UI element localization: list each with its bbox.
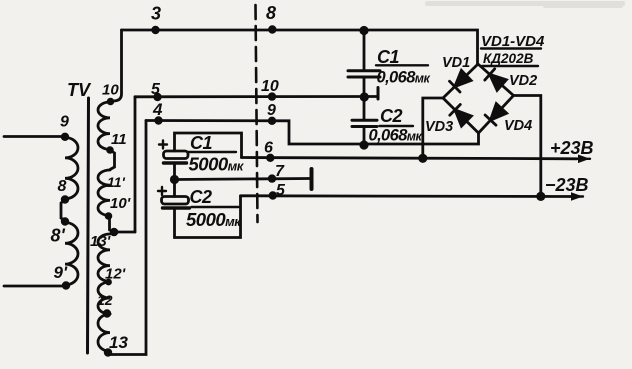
svg-text:0,068мк: 0,068мк bbox=[377, 69, 431, 87]
wire 10' down to tap junction bbox=[109, 216, 110, 230]
svg-text:C2: C2 bbox=[380, 106, 402, 126]
secondary winding 12-13 bbox=[98, 314, 110, 351]
node 10 (cable pin) bbox=[268, 92, 276, 100]
plus sign C1 bbox=[159, 141, 167, 149]
terminal tick at end of line 10 bbox=[377, 88, 380, 100]
node 12 bbox=[103, 309, 111, 317]
svg-text:VD1: VD1 bbox=[442, 55, 470, 71]
node 13' tap junction bbox=[110, 228, 119, 237]
wire left lead to primary terminal 9 bbox=[4, 135, 64, 138]
junction node bridge - output bbox=[536, 192, 545, 201]
svg-text:−23В: −23В bbox=[545, 175, 589, 195]
junction node bridge + output bbox=[418, 154, 427, 163]
node 9' bbox=[62, 281, 70, 289]
wire bridge left corner to +23V bbox=[423, 98, 443, 158]
electrolytic C2 5000mk bbox=[173, 180, 176, 197]
wire from 13 right and up to line 4 bbox=[108, 121, 146, 355]
svg-text:0,068мк: 0,068мк bbox=[369, 127, 423, 145]
secondary winding 10-11 bbox=[98, 102, 110, 149]
capacitor C1 plates bbox=[348, 69, 380, 72]
wire jog 11 to 11' bbox=[110, 150, 115, 170]
svg-text:9: 9 bbox=[60, 114, 69, 131]
svg-text:C1: C1 bbox=[190, 133, 212, 153]
node 10 (secondary terminal) bbox=[107, 98, 115, 106]
junction node midpoint (C1-/C2+) bbox=[170, 175, 179, 184]
wire jog 8 to 8' bbox=[61, 200, 65, 222]
node 4 bbox=[154, 116, 162, 124]
wire +23V rail bbox=[242, 158, 578, 159]
arrow -23V bbox=[570, 195, 583, 197]
node 10' bbox=[105, 212, 113, 220]
terminal bar at end of stub 7 bbox=[310, 169, 314, 189]
node 11 bbox=[106, 146, 114, 154]
diode VD2 bbox=[490, 74, 507, 90]
wire line 5/10 bbox=[135, 95, 378, 98]
svg-text:5: 5 bbox=[276, 182, 286, 199]
svg-text:10: 10 bbox=[261, 78, 279, 95]
electrolytic C2 positive plate bbox=[162, 197, 189, 205]
node 5 bbox=[153, 93, 161, 101]
svg-text:9: 9 bbox=[267, 102, 276, 119]
svg-text:VD4: VD4 bbox=[504, 118, 532, 134]
node 7 (cable pin) bbox=[268, 174, 276, 182]
wire midpoint line to pin 7 stub bbox=[175, 179, 311, 180]
svg-text:3: 3 bbox=[151, 4, 161, 24]
svg-text:9': 9' bbox=[54, 263, 68, 282]
svg-text:8': 8' bbox=[51, 226, 66, 246]
secondary winding 11'-10' bbox=[98, 170, 110, 216]
junction node on line to bridge bottom bbox=[359, 140, 368, 149]
svg-text:VD2: VD2 bbox=[509, 73, 537, 89]
dashed cable separator line bbox=[256, 5, 258, 222]
capacitor C2 plates bbox=[352, 119, 377, 122]
svg-text:11: 11 bbox=[111, 131, 127, 148]
svg-text:10': 10' bbox=[110, 195, 131, 212]
svg-text:5: 5 bbox=[151, 81, 161, 98]
node 8' bbox=[61, 217, 69, 225]
diode VD3 bbox=[455, 110, 471, 126]
wire -23V rail bbox=[241, 194, 571, 197]
svg-text:4: 4 bbox=[152, 100, 163, 119]
svg-text:+23В: +23В bbox=[550, 138, 594, 158]
electrolytic C1 negative plate bbox=[164, 161, 187, 164]
plus sign C2 bbox=[158, 187, 166, 195]
wire top line 3/8 bbox=[122, 30, 478, 64]
diode bridge diamond VD1-VD4 bbox=[443, 64, 514, 133]
svg-text:C1: C1 bbox=[377, 47, 399, 67]
electrolytic C1 positive plate bbox=[164, 151, 189, 159]
svg-text:13: 13 bbox=[109, 333, 128, 352]
wire line 4/9 to bridge bottom bbox=[146, 121, 479, 145]
node 13 bbox=[104, 348, 112, 356]
capacitor C1 0,068mk branch from top line bbox=[359, 26, 368, 35]
svg-text:12: 12 bbox=[97, 292, 113, 308]
node 8 (cable pin) bbox=[268, 25, 276, 33]
svg-text:VD3: VD3 bbox=[425, 119, 453, 135]
electrolytic C2 negative plate bbox=[163, 206, 190, 209]
transformer TV primary winding 9-8 bbox=[65, 138, 78, 199]
node 5 lower (cable pin) bbox=[269, 191, 277, 199]
faint scan smudges bbox=[425, 1, 625, 8]
wire bridge right corner to -23V bbox=[514, 96, 541, 197]
svg-text:8: 8 bbox=[58, 178, 67, 195]
node 8 bbox=[61, 195, 69, 203]
svg-text:C2: C2 bbox=[190, 187, 212, 207]
node 12' bbox=[105, 279, 112, 286]
diode VD1 bbox=[455, 70, 471, 86]
svg-text:7: 7 bbox=[275, 163, 285, 180]
svg-text:10: 10 bbox=[102, 82, 119, 99]
node 9 (primary top terminal) bbox=[61, 133, 69, 141]
arrow +23V bbox=[577, 158, 590, 160]
diode VD4 bbox=[491, 104, 507, 121]
node 9 (cable pin) bbox=[268, 117, 276, 125]
junction node on line 5/10 bbox=[360, 92, 369, 101]
wire center tap to vertical riser bbox=[113, 231, 135, 234]
svg-text:КД202В: КД202В bbox=[483, 51, 534, 66]
wire C2 bottom loop to -23V line bbox=[175, 196, 241, 238]
node 3 bbox=[151, 26, 159, 34]
wire riser center tap up to line 5 bbox=[134, 97, 137, 232]
secondary winding 12'-12 bbox=[98, 282, 110, 314]
capacitor C2 0,068mk branch bbox=[363, 97, 366, 120]
svg-text:TV: TV bbox=[67, 80, 92, 100]
electrolytic C1 5000mk top connection bbox=[175, 133, 242, 158]
wire from top line down to secondary terminal 10 bbox=[111, 30, 122, 101]
node 6 (cable pin) bbox=[266, 154, 274, 162]
svg-text:6: 6 bbox=[264, 140, 273, 157]
transformer TV core bbox=[88, 98, 89, 353]
secondary winding 13'-12' bbox=[98, 234, 110, 281]
svg-text:11': 11' bbox=[107, 174, 126, 190]
svg-text:8: 8 bbox=[266, 3, 276, 23]
transformer TV primary winding 8'-9' bbox=[65, 223, 78, 285]
wire left lead from primary terminal 9' bbox=[4, 285, 65, 288]
